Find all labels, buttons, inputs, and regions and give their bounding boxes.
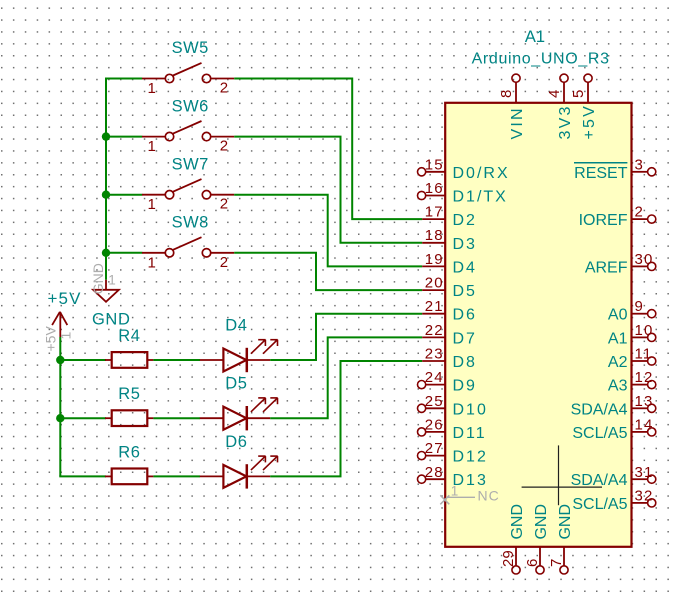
pin 12 (A3) right [608,369,656,395]
svg-text:2: 2 [635,204,645,221]
svg-text:SW8: SW8 [172,214,209,232]
svg-text:SDA/A4: SDA/A4 [571,401,628,418]
reference A1 [525,28,545,46]
svg-text:13: 13 [635,393,654,410]
pin 26 (D11) left [418,416,487,442]
pin 2 (IOREF) right [579,204,656,230]
pin 11 (A2) right [608,346,656,372]
label R4 [118,327,140,345]
+5V power symbol [43,312,74,352]
svg-text:1: 1 [147,196,155,213]
svg-text:2: 2 [220,254,228,271]
svg-text:24: 24 [425,369,444,386]
wire: SW5 pin2 to Arduino D2 [234,79,422,220]
svg-text:2: 2 [220,80,228,97]
wire: +5V vertical bus [59,337,61,476]
pin 23 (D8) left [422,346,477,372]
svg-text:27: 27 [425,440,444,457]
pin 10 (A1) right [608,322,656,348]
svg-text:SW7: SW7 [172,155,209,173]
ground symbol (power GND) [90,263,119,302]
pin 18 (D3) left [422,227,477,253]
svg-text:9: 9 [635,298,645,315]
wire: LED D5 to Arduino D7 [270,337,422,418]
label SW5 [172,39,209,57]
pin 3 (RESET) right [574,156,656,182]
wire: bus to SW6 pin 1 [105,136,142,138]
switch SW7 [142,179,234,213]
wire: SW7 pin2 to Arduino D4 [234,195,422,267]
svg-text:D9: D9 [453,378,477,395]
wire: +5V bus to R5 [59,417,106,419]
wire: SW6 pin2 to Arduino D3 [234,137,422,243]
label SW8 [172,214,209,232]
LED D4 [200,340,278,373]
wire: bus to SW7 pin 1 [105,194,142,196]
pin 4 (3V3) top [546,74,574,139]
svg-text:GND: GND [90,263,106,294]
svg-text:10: 10 [635,322,654,339]
svg-text:GND: GND [533,504,550,540]
LED D6 [200,456,278,489]
pin 6 (GND) bottom [524,504,550,574]
LED D5 [200,398,278,431]
svg-text:D10: D10 [453,401,488,418]
wire: LED D6 to Arduino D8 [270,361,422,476]
svg-text:1: 1 [147,80,155,97]
junction at bus / SW6 pin1 [102,132,110,140]
svg-text:GND: GND [92,311,130,329]
resistor R4 [105,352,153,368]
pin 28 (D13) left [418,464,488,489]
junction at bus / SW7 pin1 [102,191,110,199]
svg-text:D3: D3 [453,236,477,253]
svg-text:2: 2 [220,196,228,213]
svg-text:4: 4 [546,90,563,98]
junction at +5V bus / R4 [56,356,64,364]
+5V net label [48,289,82,308]
svg-text:25: 25 [425,393,444,410]
svg-text:A1: A1 [608,330,628,347]
svg-text:D6: D6 [453,307,477,324]
pin 17 (D2) left [422,204,477,230]
svg-text:IOREF: IOREF [579,212,628,229]
svg-text:D2: D2 [453,212,477,229]
svg-text:SCL/A5: SCL/A5 [572,496,627,513]
junction at bus / SW8 pin1 [102,249,110,257]
svg-text:8: 8 [498,90,515,98]
pin 15 (D0/RX) left [418,156,510,182]
pin 19 (D4) left [422,251,477,277]
svg-text:1: 1 [451,484,459,499]
switch SW8 [142,237,234,271]
svg-text:D6: D6 [225,433,247,451]
svg-text:D5: D5 [453,283,477,300]
svg-text:A1: A1 [525,28,545,46]
GND net label [92,311,130,329]
svg-text:VIN: VIN [509,106,526,139]
svg-text:16: 16 [425,180,444,197]
svg-text:AREF: AREF [585,259,628,276]
junction at +5V bus / R5 [56,414,64,422]
svg-text:+5V: +5V [48,289,82,308]
svg-text:1: 1 [147,254,155,271]
pin 32 (SCL/A5) right [572,487,655,513]
svg-text:RESET: RESET [574,165,628,182]
pin 7 (GND) bottom [548,504,574,574]
svg-text:GND: GND [557,504,574,540]
svg-text:5: 5 [570,90,587,98]
svg-text:GND: GND [509,504,526,540]
svg-text:+5V: +5V [581,104,598,140]
svg-text:17: 17 [425,204,444,221]
label D4 [225,317,247,335]
svg-text:11: 11 [635,346,653,363]
label R5 [118,385,140,403]
label SW6 [172,97,209,115]
wire: bus to SW8 pin 1 [105,252,142,254]
svg-text:1: 1 [147,138,155,155]
svg-text:NC: NC [478,488,500,504]
svg-text:D12: D12 [453,449,488,466]
IC A1 Arduino_UNO_R3 body [445,103,631,547]
svg-text:26: 26 [425,416,444,433]
wire: +5V bus to R6 [59,475,106,477]
svg-text:6: 6 [524,559,541,567]
svg-text:12: 12 [635,369,654,386]
svg-text:15: 15 [425,156,444,173]
hidden pin 1 NC [440,484,499,505]
svg-text:18: 18 [425,227,444,244]
wire: bus to SW5 pin 1 [105,78,142,80]
pin 24 (D9) left [418,369,477,395]
svg-text:A3: A3 [608,378,628,395]
resistor R6 [105,469,153,485]
svg-text:2: 2 [220,138,228,155]
cursor crosshair [522,445,602,505]
svg-text:21: 21 [425,298,444,315]
svg-text:7: 7 [548,559,565,567]
pin 16 (D1/TX) left [418,180,508,206]
svg-text:3: 3 [635,156,645,173]
pin 31 (SDA/A4) right [571,464,656,489]
wire: R6 to LED D6 [153,475,200,477]
pin 13 (SDA/A4) right [571,393,656,419]
svg-text:R5: R5 [118,385,140,403]
wire: R4 to LED D4 [153,359,200,361]
svg-text:D5: D5 [225,375,247,393]
pin 14 (SCL/A5) right [572,416,655,442]
resistor R5 [105,410,153,426]
svg-text:29: 29 [500,550,517,567]
svg-text:20: 20 [425,275,444,292]
pin 5 (+5V) top [570,74,598,139]
svg-text:Arduino_UNO_R3: Arduino_UNO_R3 [472,50,610,67]
switch SW5 [142,63,234,97]
pin 27 (D12) left [418,440,488,466]
wire: left vertical bus from SW5 down to GND [105,79,107,280]
svg-text:D11: D11 [453,425,487,442]
pin 8 (VIN) top [498,74,526,139]
value Arduino_UNO_R3 [472,50,610,67]
svg-text:A0: A0 [608,307,628,324]
svg-text:SW6: SW6 [172,97,209,115]
pin 29 (GND) bottom [500,504,526,574]
svg-text:D0/RX: D0/RX [453,165,510,182]
pin 25 (D10) left [418,393,488,419]
svg-text:D4: D4 [225,317,247,335]
svg-text:D1/TX: D1/TX [453,189,508,206]
switch SW6 [142,121,234,155]
pin 21 (D6) left [422,298,477,324]
label SW7 [172,155,209,173]
wire: LED D4 to Arduino D6 [270,314,422,360]
svg-text:R4: R4 [118,327,140,345]
svg-text:1: 1 [108,273,116,288]
svg-text:14: 14 [635,416,654,433]
label R6 [118,443,140,461]
svg-text:22: 22 [425,322,444,339]
svg-text:D4: D4 [453,259,477,276]
pin 20 (D5) left [422,275,477,301]
pin 30 (AREF) right [585,251,656,277]
svg-text:SW5: SW5 [172,39,209,57]
svg-text:D8: D8 [453,354,477,371]
wire: +5V bus to R4 [59,359,106,361]
svg-text:D7: D7 [453,330,477,347]
svg-text:32: 32 [635,487,654,504]
svg-text:R6: R6 [118,443,140,461]
svg-text:SCL/A5: SCL/A5 [572,425,627,442]
svg-text:+5V: +5V [43,326,59,352]
svg-text:19: 19 [425,251,444,268]
svg-text:3V3: 3V3 [557,104,574,139]
svg-text:31: 31 [635,464,654,481]
svg-text:23: 23 [425,346,444,363]
svg-text:28: 28 [425,464,444,481]
svg-text:30: 30 [635,251,654,268]
wire: R5 to LED D5 [153,417,200,419]
label D5 [225,375,247,393]
label D6 [225,433,247,451]
pin 9 (A0) right [608,298,656,324]
pin 22 (D7) left [422,322,477,348]
wire: SW8 pin2 to Arduino D5 [234,253,422,290]
svg-text:A2: A2 [608,354,628,371]
